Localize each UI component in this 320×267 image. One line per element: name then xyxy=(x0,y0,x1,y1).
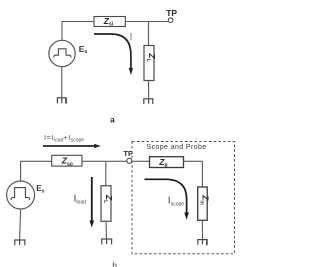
svg-text:Scope and Probe: Scope and Probe xyxy=(147,144,207,151)
wire source-bottom to ground (fig a) xyxy=(61,67,63,97)
ground under source (fig a) xyxy=(57,98,67,104)
wire junction down to load (fig a) xyxy=(148,22,150,46)
resistor Z_s box (fig b) xyxy=(52,155,82,166)
probe impedance Z_p box xyxy=(150,157,184,168)
wire TP to Zp (fig b) xyxy=(132,160,150,162)
svg-text:I: I xyxy=(130,32,133,43)
wire junction to load (fig b) xyxy=(105,161,107,186)
pulse source E_s (fig b) xyxy=(7,181,35,209)
resistor Z_s box (fig a) xyxy=(94,17,125,27)
wire Zp to scope input xyxy=(184,161,203,187)
wire scope input to ground xyxy=(201,220,203,239)
wire Zs to TP (fig a) xyxy=(125,21,168,23)
load impedance Z_L box (fig a) xyxy=(144,46,154,81)
wire load to ground (fig a) xyxy=(148,81,150,99)
node TP terminal (fig b) xyxy=(127,158,132,163)
wire Zs to TP (fig b) xyxy=(82,160,127,162)
wire source-bottom to ground (fig b) xyxy=(20,209,21,240)
current arrow I_scope xyxy=(145,179,189,219)
ground in scope box xyxy=(197,240,208,246)
wire source-top to Zs (fig b) xyxy=(21,161,52,181)
pulse source E_s (fig a) xyxy=(49,40,75,66)
current sum arrow (fig b) xyxy=(43,144,101,148)
svg-text:b: b xyxy=(112,261,117,267)
current arrow I (fig a) xyxy=(94,34,133,75)
svg-text:TP: TP xyxy=(166,8,177,18)
current arrow I_load (fig b) xyxy=(90,177,95,228)
ground under source (fig b) xyxy=(14,240,25,245)
scope input impedance Z_in box xyxy=(198,187,208,220)
scope and probe dashed enclosure xyxy=(132,142,235,254)
svg-text:a: a xyxy=(110,115,115,124)
wire load to ground (fig b) xyxy=(105,221,108,238)
ground under load (fig a) xyxy=(143,99,153,104)
load impedance Z_L box (fig b) xyxy=(101,186,111,222)
node TP terminal (fig a) xyxy=(168,18,173,23)
ground under load (fig b) xyxy=(101,239,112,245)
wire source-top to Zs (fig a) xyxy=(62,22,94,41)
